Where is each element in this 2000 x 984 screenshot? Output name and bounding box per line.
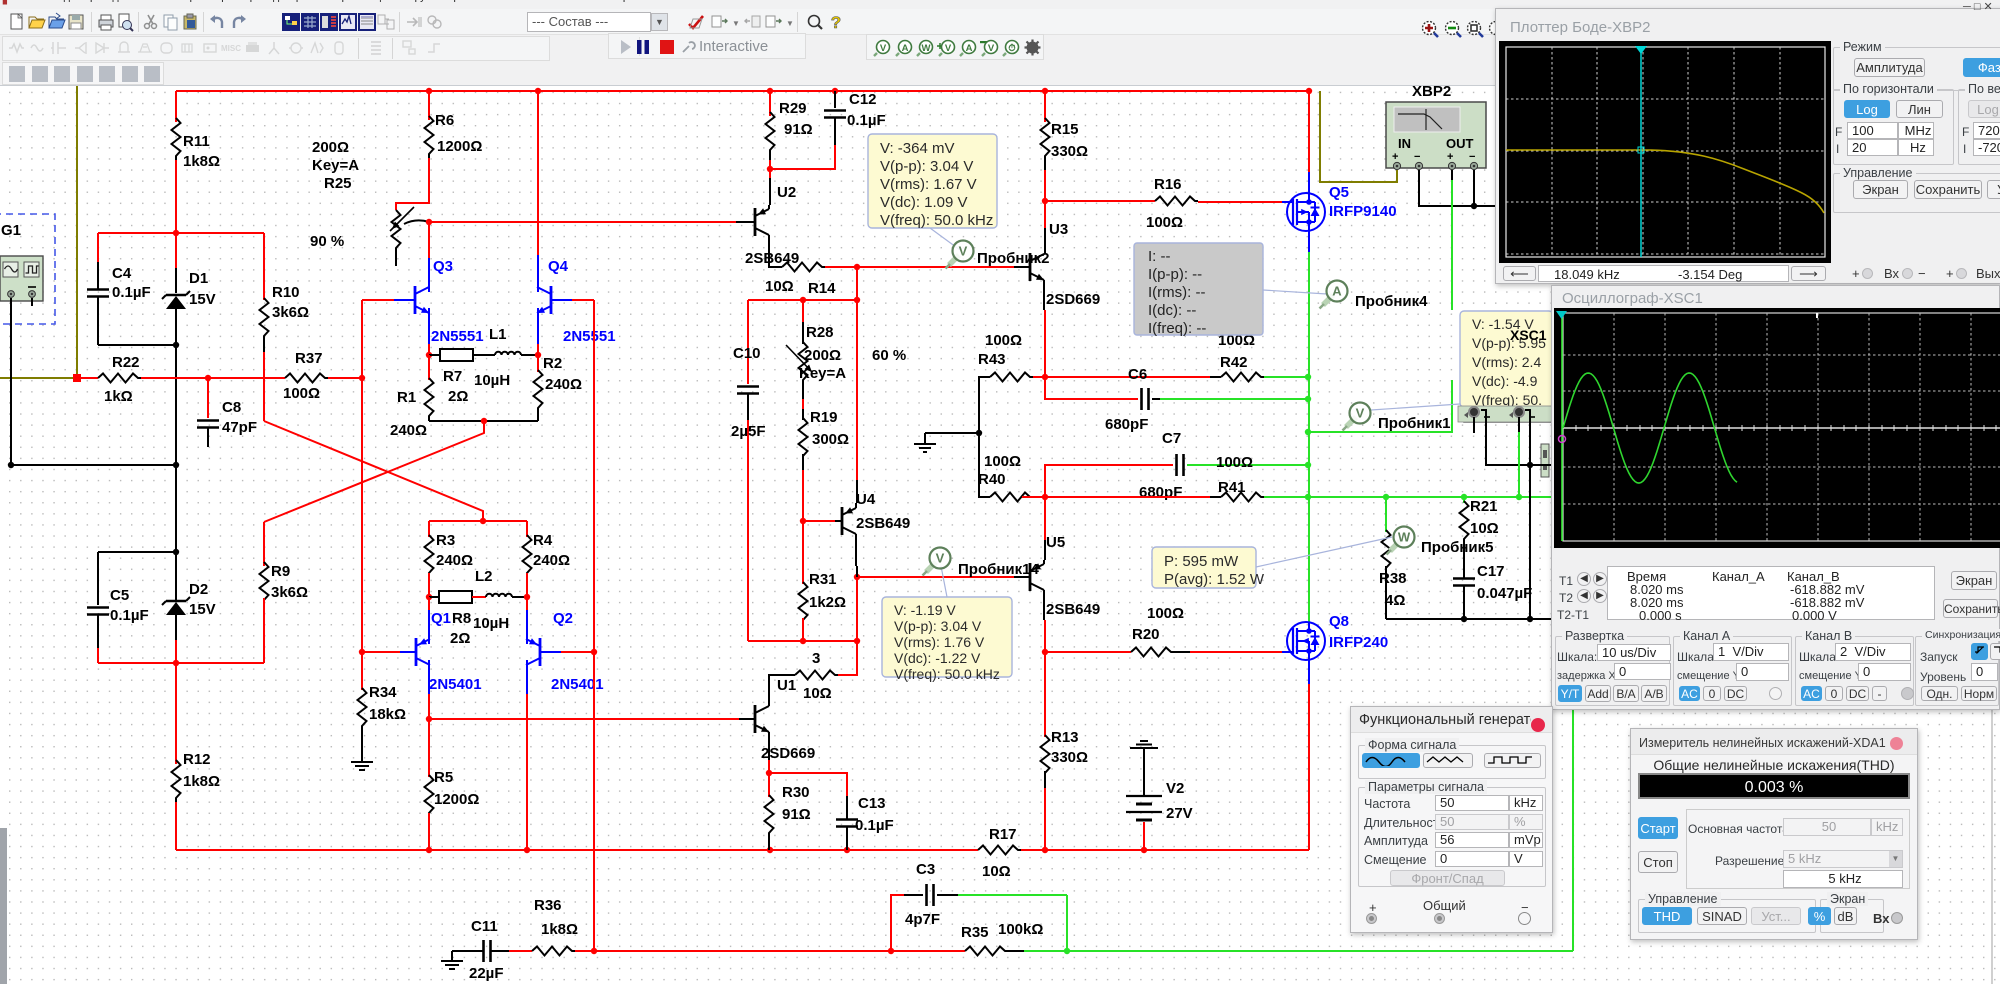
node: junction R40/R43/ground <box>976 430 982 436</box>
node: junction U3 emitter / R43 / R42 wire <box>1042 374 1048 380</box>
wire: scope hook down to bottom bus <box>1529 465 1531 619</box>
svg-text:R30: R30 <box>782 784 810 801</box>
capacitor C3 <box>891 895 904 951</box>
node: junction R29/C12/U2 emitter <box>767 166 773 172</box>
node: junction U1 emitter <box>766 770 772 776</box>
svg-text:1200Ω: 1200Ω <box>437 138 482 155</box>
wire: U5 emitter from output <box>1044 497 1046 530</box>
svg-text:Q4: Q4 <box>548 258 569 275</box>
wire: olive wire XBP2 IN+ to top rail <box>1320 91 1397 182</box>
probe box: output voltage readings <box>1460 311 1553 407</box>
potentiometer R25 body <box>392 210 401 252</box>
svg-text:V: V <box>880 43 887 54</box>
transistor U5 2SB649 <box>1044 530 1046 540</box>
svg-text:R29: R29 <box>779 100 807 117</box>
svg-text:1k2Ω: 1k2Ω <box>809 594 846 611</box>
node: junction C5 top tap <box>173 549 179 555</box>
svg-text:R12: R12 <box>183 751 211 768</box>
svg-text:0.1µF: 0.1µF <box>110 607 149 624</box>
resistor R35 <box>965 947 1008 956</box>
svg-text:I(freq): --: I(freq): -- <box>1148 320 1206 337</box>
svg-text:2N5551: 2N5551 <box>431 328 484 345</box>
svg-text:Key=A: Key=A <box>312 157 359 174</box>
probe Пробник2 <box>949 255 959 265</box>
node: G1 tap junction <box>173 462 179 468</box>
svg-text:90 %: 90 % <box>310 233 344 250</box>
node: rail junction at C12 <box>832 88 838 94</box>
wire: -V bottom supply rail <box>176 849 978 851</box>
mosfet Q8 IRFP240 <box>1308 658 1310 685</box>
svg-text:2SB649: 2SB649 <box>1046 601 1100 618</box>
wire: U1 emitter to C13 <box>769 773 847 796</box>
svg-text:I(rms): --: I(rms): -- <box>1148 284 1205 301</box>
svg-text:R38: R38 <box>1379 570 1407 587</box>
svg-text:22µF: 22µF <box>469 965 504 982</box>
svg-text:100Ω: 100Ω <box>1147 605 1184 622</box>
node: junction green bus / C3 <box>1064 948 1070 954</box>
svg-text:V(dc): -4.9: V(dc): -4.9 <box>1472 373 1538 389</box>
svg-text:200Ω: 200Ω <box>804 347 841 364</box>
svg-text:V2: V2 <box>1166 780 1184 797</box>
svg-text:4Ω: 4Ω <box>1385 592 1405 609</box>
svg-text:Key=A: Key=A <box>799 365 846 382</box>
node: junction U4 collector / U5 base wire <box>854 574 860 580</box>
node: rail junction at Q4 collector <box>535 88 541 94</box>
svg-text:R41: R41 <box>1218 479 1246 496</box>
svg-text:2SD669: 2SD669 <box>761 745 815 762</box>
wire: green output node vertical <box>1308 252 1310 624</box>
battery V2 27V <box>1140 740 1148 742</box>
svg-text:100kΩ: 100kΩ <box>998 921 1043 938</box>
selection box around G1 <box>0 214 55 324</box>
leader line probe1 <box>1371 404 1460 410</box>
transistor U4 2SB649 <box>856 480 858 503</box>
svg-text:IRFP240: IRFP240 <box>1329 634 1388 651</box>
node: junction U5 collector / R20 / R13 <box>1042 649 1048 655</box>
transistor Q3 2N5551 <box>428 222 430 258</box>
capacitor C6 branch <box>1045 377 1138 399</box>
svg-text:V(rms): 1.67 V: V(rms): 1.67 V <box>880 176 977 193</box>
svg-text:W: W <box>1398 530 1411 545</box>
probe Пробник5 (power) <box>1390 541 1400 551</box>
svg-text:V: V <box>987 43 994 54</box>
svg-text:R16: R16 <box>1154 176 1182 193</box>
node: green junction C7 <box>1305 462 1311 468</box>
svg-text:V(p-p): 3.04 V: V(p-p): 3.04 V <box>880 158 973 175</box>
svg-text:I(dc): --: I(dc): -- <box>1148 302 1196 319</box>
probe Пробник4 (current) <box>1323 295 1333 305</box>
svg-text:0.1µF: 0.1µF <box>855 817 894 834</box>
svg-text:V: -364 mV: V: -364 mV <box>880 140 954 157</box>
svg-text:1k8Ω: 1k8Ω <box>183 153 220 170</box>
wire: R1-R2 bottom rail <box>429 420 538 422</box>
svg-text:300Ω: 300Ω <box>812 431 849 448</box>
svg-text:100Ω: 100Ω <box>984 453 1021 470</box>
node: junction Q1 base <box>359 649 365 655</box>
node: junction Q1 collector / R5 / U1 base wire <box>426 716 432 722</box>
wire: R42 row from U3 emitter <box>1045 376 1210 378</box>
svg-text:Q2: Q2 <box>553 610 573 627</box>
svg-text:R6: R6 <box>435 112 454 129</box>
wire: green output bus to right <box>1308 496 1553 498</box>
svg-text:A: A <box>966 43 973 54</box>
capacitor C17 <box>1453 577 1475 580</box>
wire: long wire to U2 base <box>429 221 736 223</box>
svg-text:C17: C17 <box>1477 563 1505 580</box>
resistor R31 <box>802 521 804 584</box>
wire: XBP2 OUT+ green down <box>1451 170 1453 180</box>
svg-text:Пробник5: Пробник5 <box>1421 539 1494 556</box>
svg-text:R21: R21 <box>1470 498 1498 515</box>
svg-text:2Ω: 2Ω <box>448 388 468 405</box>
svg-text:W: W <box>922 43 931 54</box>
svg-text:R28: R28 <box>806 324 834 341</box>
svg-text:3k6Ω: 3k6Ω <box>272 304 309 321</box>
svg-text:P: 595 mW: P: 595 mW <box>1164 553 1239 570</box>
wire: bias top rail <box>748 299 857 301</box>
node: D1 anode junction <box>173 342 179 348</box>
resistor R37 <box>285 374 328 383</box>
node: rail junction V2 <box>1141 847 1147 853</box>
svg-text:IRFP9140: IRFP9140 <box>1329 203 1397 220</box>
wire: D1 anode down through R22 crossing to D2 <box>175 345 177 601</box>
svg-text:2N5551: 2N5551 <box>563 328 616 345</box>
wire: R31 to U4 collector node <box>748 640 857 642</box>
svg-text:C10: C10 <box>733 345 761 362</box>
svg-text:R10: R10 <box>272 284 300 301</box>
node: junction scope ground wire <box>1527 616 1533 622</box>
node: junction tail rail to cross wire <box>481 418 487 424</box>
svg-text:⏱: ⏱ <box>1008 42 1016 54</box>
svg-text:680pF: 680pF <box>1105 416 1148 433</box>
svg-text:R20: R20 <box>1132 626 1160 643</box>
svg-text:100Ω: 100Ω <box>985 332 1022 349</box>
svg-text:R37: R37 <box>295 350 323 367</box>
node: G1 wire corner <box>8 462 14 468</box>
resistor R1 <box>428 355 430 380</box>
node: rail junction R30 <box>767 847 773 853</box>
svg-text:R34: R34 <box>369 684 397 701</box>
svg-text:R19: R19 <box>810 409 838 426</box>
svg-text:U3: U3 <box>1049 221 1068 238</box>
node: junction R19 / U4 base <box>800 518 806 524</box>
svg-text:C4: C4 <box>112 265 132 282</box>
wire: G1 + output down and right to zener string <box>11 298 176 465</box>
svg-text:330Ω: 330Ω <box>1051 143 1088 160</box>
svg-text:C3: C3 <box>916 861 935 878</box>
svg-text:2Ω: 2Ω <box>450 630 470 647</box>
svg-text:V: -1.19 V: V: -1.19 V <box>894 602 956 618</box>
svg-text:Q1: Q1 <box>431 610 451 627</box>
svg-text:100Ω: 100Ω <box>1216 454 1253 471</box>
svg-text:R11: R11 <box>183 133 210 150</box>
svg-text:V: V <box>936 551 945 566</box>
svg-text:V(freq): 50.0 kHz: V(freq): 50.0 kHz <box>894 666 1000 682</box>
node: junction scope ground hooks <box>1527 462 1533 468</box>
svg-text:V(dc): -1.22 V: V(dc): -1.22 V <box>894 650 981 666</box>
zener diode D2 15V <box>166 600 186 602</box>
svg-text:240Ω: 240Ω <box>533 552 570 569</box>
svg-text:R1: R1 <box>397 389 416 406</box>
resistor R5 <box>428 719 430 777</box>
svg-text:2SD669: 2SD669 <box>1046 291 1100 308</box>
resistor R6 <box>428 91 430 120</box>
resistor R21 <box>1463 497 1465 503</box>
svg-text:47pF: 47pF <box>222 419 257 436</box>
probe box: V -1.19 readings <box>882 597 1012 677</box>
svg-text:D2: D2 <box>189 581 208 598</box>
svg-text:C8: C8 <box>222 399 241 416</box>
svg-text:18kΩ: 18kΩ <box>369 706 406 723</box>
svg-text:R7: R7 <box>443 368 462 385</box>
ground below R34 <box>361 752 363 762</box>
svg-text:V: V <box>959 244 968 259</box>
svg-text:L2: L2 <box>475 568 493 585</box>
node: junction XBP2 OUT- wire <box>1471 203 1477 209</box>
svg-text:Пробник14: Пробник14 <box>958 561 1040 578</box>
resistor R2 <box>537 355 539 372</box>
wire: R38/C17 bottom bus <box>1386 618 1553 620</box>
resistor R43 <box>990 373 1033 382</box>
svg-text:U5: U5 <box>1046 534 1065 551</box>
wire: upper rail of lower diff pair R3/R4 <box>429 520 527 522</box>
svg-text:V(rms): 2.4: V(rms): 2.4 <box>1472 354 1541 370</box>
resistor R13 <box>1044 652 1046 737</box>
node: rail junction R13 <box>1042 847 1048 853</box>
svg-text:2N5401: 2N5401 <box>429 676 482 693</box>
node: rail junction at R29 <box>767 88 773 94</box>
svg-text:Q3: Q3 <box>433 258 453 275</box>
svg-text:R4: R4 <box>533 532 553 549</box>
capacitor C7 branch <box>1045 465 1173 497</box>
node: junction Q4 emitter / L1 / R2 <box>535 352 541 358</box>
svg-text:2N5401: 2N5401 <box>551 676 604 693</box>
svg-text:91Ω: 91Ω <box>782 806 811 823</box>
wire: bottom feedback bus <box>594 950 965 952</box>
svg-text:R5: R5 <box>434 769 453 786</box>
ground middle <box>925 432 979 434</box>
oscilloscope XSC1 icon <box>1464 352 1553 422</box>
gray box: current probe readings <box>1134 243 1263 335</box>
svg-text:R8: R8 <box>452 610 471 627</box>
svg-text:1k8Ω: 1k8Ω <box>541 921 578 938</box>
svg-text:C6: C6 <box>1128 366 1147 383</box>
node: junction R37 / Q3 base riser <box>359 375 365 381</box>
svg-text:100Ω: 100Ω <box>1146 214 1183 231</box>
resistor R17 <box>978 846 1021 855</box>
svg-text:0.1µF: 0.1µF <box>847 112 886 129</box>
inductor L2 <box>486 594 512 597</box>
svg-text:1200Ω: 1200Ω <box>434 791 479 808</box>
svg-text:V(freq): 50.0 kHz: V(freq): 50.0 kHz <box>880 212 993 229</box>
wire: feedback riser x594 <box>593 300 595 951</box>
svg-text:R17: R17 <box>989 826 1017 843</box>
svg-text:C13: C13 <box>858 795 886 812</box>
node: green junction scope channel <box>1516 494 1522 500</box>
node: rail corner at Q5 <box>1306 88 1312 94</box>
svg-text:G1: G1 <box>1 222 21 239</box>
svg-text:Q8: Q8 <box>1329 613 1349 630</box>
svg-text:R15: R15 <box>1051 121 1079 138</box>
resistor R14 <box>769 266 782 267</box>
node: rail junction C13 <box>844 847 850 853</box>
svg-text:Пробник2: Пробник2 <box>977 250 1050 267</box>
node: junction R36 / feedback riser <box>591 948 597 954</box>
capacitor C8 <box>207 378 209 418</box>
svg-text:Пробник1: Пробник1 <box>1378 415 1451 432</box>
probe box: power readings <box>1152 547 1256 588</box>
svg-text:0.047µF: 0.047µF <box>1477 585 1532 602</box>
svg-text:60 %: 60 % <box>872 347 906 364</box>
svg-text:91Ω: 91Ω <box>784 121 813 138</box>
resistor R9 <box>260 562 269 604</box>
wire: R14 to U3 base <box>857 266 1014 268</box>
svg-text:IN: IN <box>1398 136 1411 151</box>
svg-text:C11: C11 <box>471 918 498 935</box>
node: green junction probe wire <box>1305 429 1311 435</box>
svg-text:15V: 15V <box>189 291 216 308</box>
svg-text:V: V <box>944 43 951 54</box>
transistor Q4 2N5551 <box>537 91 539 255</box>
node: olive/red junction <box>73 374 81 382</box>
resistor R40 <box>979 433 990 497</box>
svg-text:10Ω: 10Ω <box>982 863 1011 880</box>
resistor R7 (box style) <box>429 354 440 356</box>
svg-text:Пробник4: Пробник4 <box>1355 293 1428 310</box>
wire: lower zener bus <box>98 662 264 664</box>
wire: scope terminal A hook <box>1473 417 1475 433</box>
wire: green output bus bottom <box>1024 950 1573 952</box>
svg-text:R2: R2 <box>543 355 562 372</box>
svg-text:240Ω: 240Ω <box>545 376 582 393</box>
wire: +V top supply rail <box>176 90 1309 92</box>
svg-text:10Ω: 10Ω <box>803 685 832 702</box>
wire: R25 wiper to Q3 collector node <box>404 220 429 224</box>
node: junction Q2 base feedback riser <box>591 649 597 655</box>
svg-text:+: + <box>1447 151 1453 163</box>
svg-text:27V: 27V <box>1166 805 1193 822</box>
svg-text:V(p-p): 3.04 V: V(p-p): 3.04 V <box>894 618 982 634</box>
transistor Q2 2N5401 <box>526 597 528 610</box>
svg-text:1kΩ: 1kΩ <box>104 388 133 405</box>
svg-text:330Ω: 330Ω <box>1051 749 1088 766</box>
node: junction Q3 collector / U2 base wire <box>426 219 432 225</box>
svg-text:200Ω: 200Ω <box>312 139 349 156</box>
svg-text:L1: L1 <box>489 326 507 343</box>
node: junction Q3 emitter / R7 / R1 <box>426 352 432 358</box>
leader line probe14 <box>941 566 947 597</box>
svg-text:10µH: 10µH <box>474 372 510 389</box>
node: rail junction Q2 collector <box>524 847 530 853</box>
node: green junction R21 <box>1461 494 1467 500</box>
node: rail junction at R15 <box>1042 88 1048 94</box>
transistor U3 body <box>1029 253 1032 281</box>
node: junction C3 branch <box>888 948 894 954</box>
resistor R29 <box>769 91 771 116</box>
svg-text:I: --: I: -- <box>1148 248 1171 265</box>
node: junction U4 collector / resistor 3 <box>854 638 860 644</box>
svg-text:−: − <box>1414 151 1420 163</box>
wire: scope terminal B hook <box>1525 410 1530 465</box>
resistor R16 <box>1045 200 1155 202</box>
svg-text:MISC: MISC <box>221 44 241 53</box>
leader line probe2 <box>930 228 960 250</box>
resistor R8 (box style) <box>429 596 439 598</box>
svg-text:V: V <box>1356 406 1365 421</box>
svg-text:XBP2: XBP2 <box>1412 86 1451 100</box>
wire: U5 base wire <box>857 576 1014 578</box>
wire: olive input wire from generator net <box>76 86 78 378</box>
resistor R3 <box>428 521 430 537</box>
node: junction C17 bottom <box>1461 616 1467 622</box>
node: junction R22/C8 <box>205 375 211 381</box>
node: junction bias top right <box>854 297 860 303</box>
node: junction R4/L2/Q2 emitter <box>524 594 530 600</box>
svg-text:10Ω: 10Ω <box>1470 520 1499 537</box>
transistor U2 2SB649 <box>769 169 771 178</box>
node: junction cross wires <box>480 518 486 524</box>
svg-text:R9: R9 <box>271 563 290 580</box>
resistor R20 <box>1045 651 1131 653</box>
svg-text:XSC1: XSC1 <box>1510 327 1547 343</box>
resistor R11 <box>175 91 177 122</box>
oscilloscope icon terminals <box>1458 406 1553 422</box>
wire: green horizontal to XBP out <box>1308 380 1452 432</box>
leader line probe4 <box>1263 290 1327 294</box>
wire: XBP2 IN- to scope ground bus <box>1419 170 1495 206</box>
svg-text:R14: R14 <box>808 280 836 297</box>
capacitor C13 <box>836 818 858 821</box>
inductor L1 <box>495 352 521 355</box>
wire: diagonal cross wire to lower-left <box>264 421 484 522</box>
node: junction R3/R8/Q1 emitter <box>426 594 432 600</box>
svg-text:A: A <box>1332 284 1342 299</box>
svg-text:C5: C5 <box>110 587 129 604</box>
svg-text:680pF: 680pF <box>1139 484 1182 501</box>
capacitor C11 <box>452 950 483 952</box>
svg-text:2µ5F: 2µ5F <box>731 423 766 440</box>
svg-text:R31: R31 <box>809 571 837 588</box>
resistor R4 <box>526 521 528 537</box>
svg-text:C12: C12 <box>849 91 877 108</box>
resistor R10 <box>263 233 265 300</box>
svg-text:+: + <box>1392 151 1398 163</box>
svg-text:R3: R3 <box>436 532 455 549</box>
svg-text:P(avg): 1.52 W: P(avg): 1.52 W <box>1164 571 1265 588</box>
wire: down to R9 <box>263 522 265 566</box>
svg-text:V(rms): 1.76 V: V(rms): 1.76 V <box>894 634 985 650</box>
wire: G1 - stub <box>31 298 33 306</box>
node: rail junction at R6 <box>426 88 432 94</box>
svg-text:240Ω: 240Ω <box>390 422 427 439</box>
node: junction R28 top <box>800 297 806 303</box>
svg-text:2SB649: 2SB649 <box>745 250 799 267</box>
svg-text:3k6Ω: 3k6Ω <box>271 584 308 601</box>
zener diode D1 15V <box>166 294 186 296</box>
svg-text:R36: R36 <box>534 897 562 914</box>
svg-text:R13: R13 <box>1051 729 1079 746</box>
node: green junction R42 <box>1305 374 1311 380</box>
wire: Q1 base wire <box>362 651 400 653</box>
node: green junction output bus <box>1305 494 1311 500</box>
node: junction R15 / R16 / U3 <box>1042 198 1048 204</box>
node: junction R11/D1/C4/R10 <box>173 230 179 236</box>
svg-text:R35: R35 <box>961 924 989 941</box>
wire: U3 collector <box>1044 201 1046 228</box>
capacitor C4 <box>97 233 99 262</box>
svg-text:3: 3 <box>812 650 820 667</box>
capacitor C10 <box>747 300 749 384</box>
